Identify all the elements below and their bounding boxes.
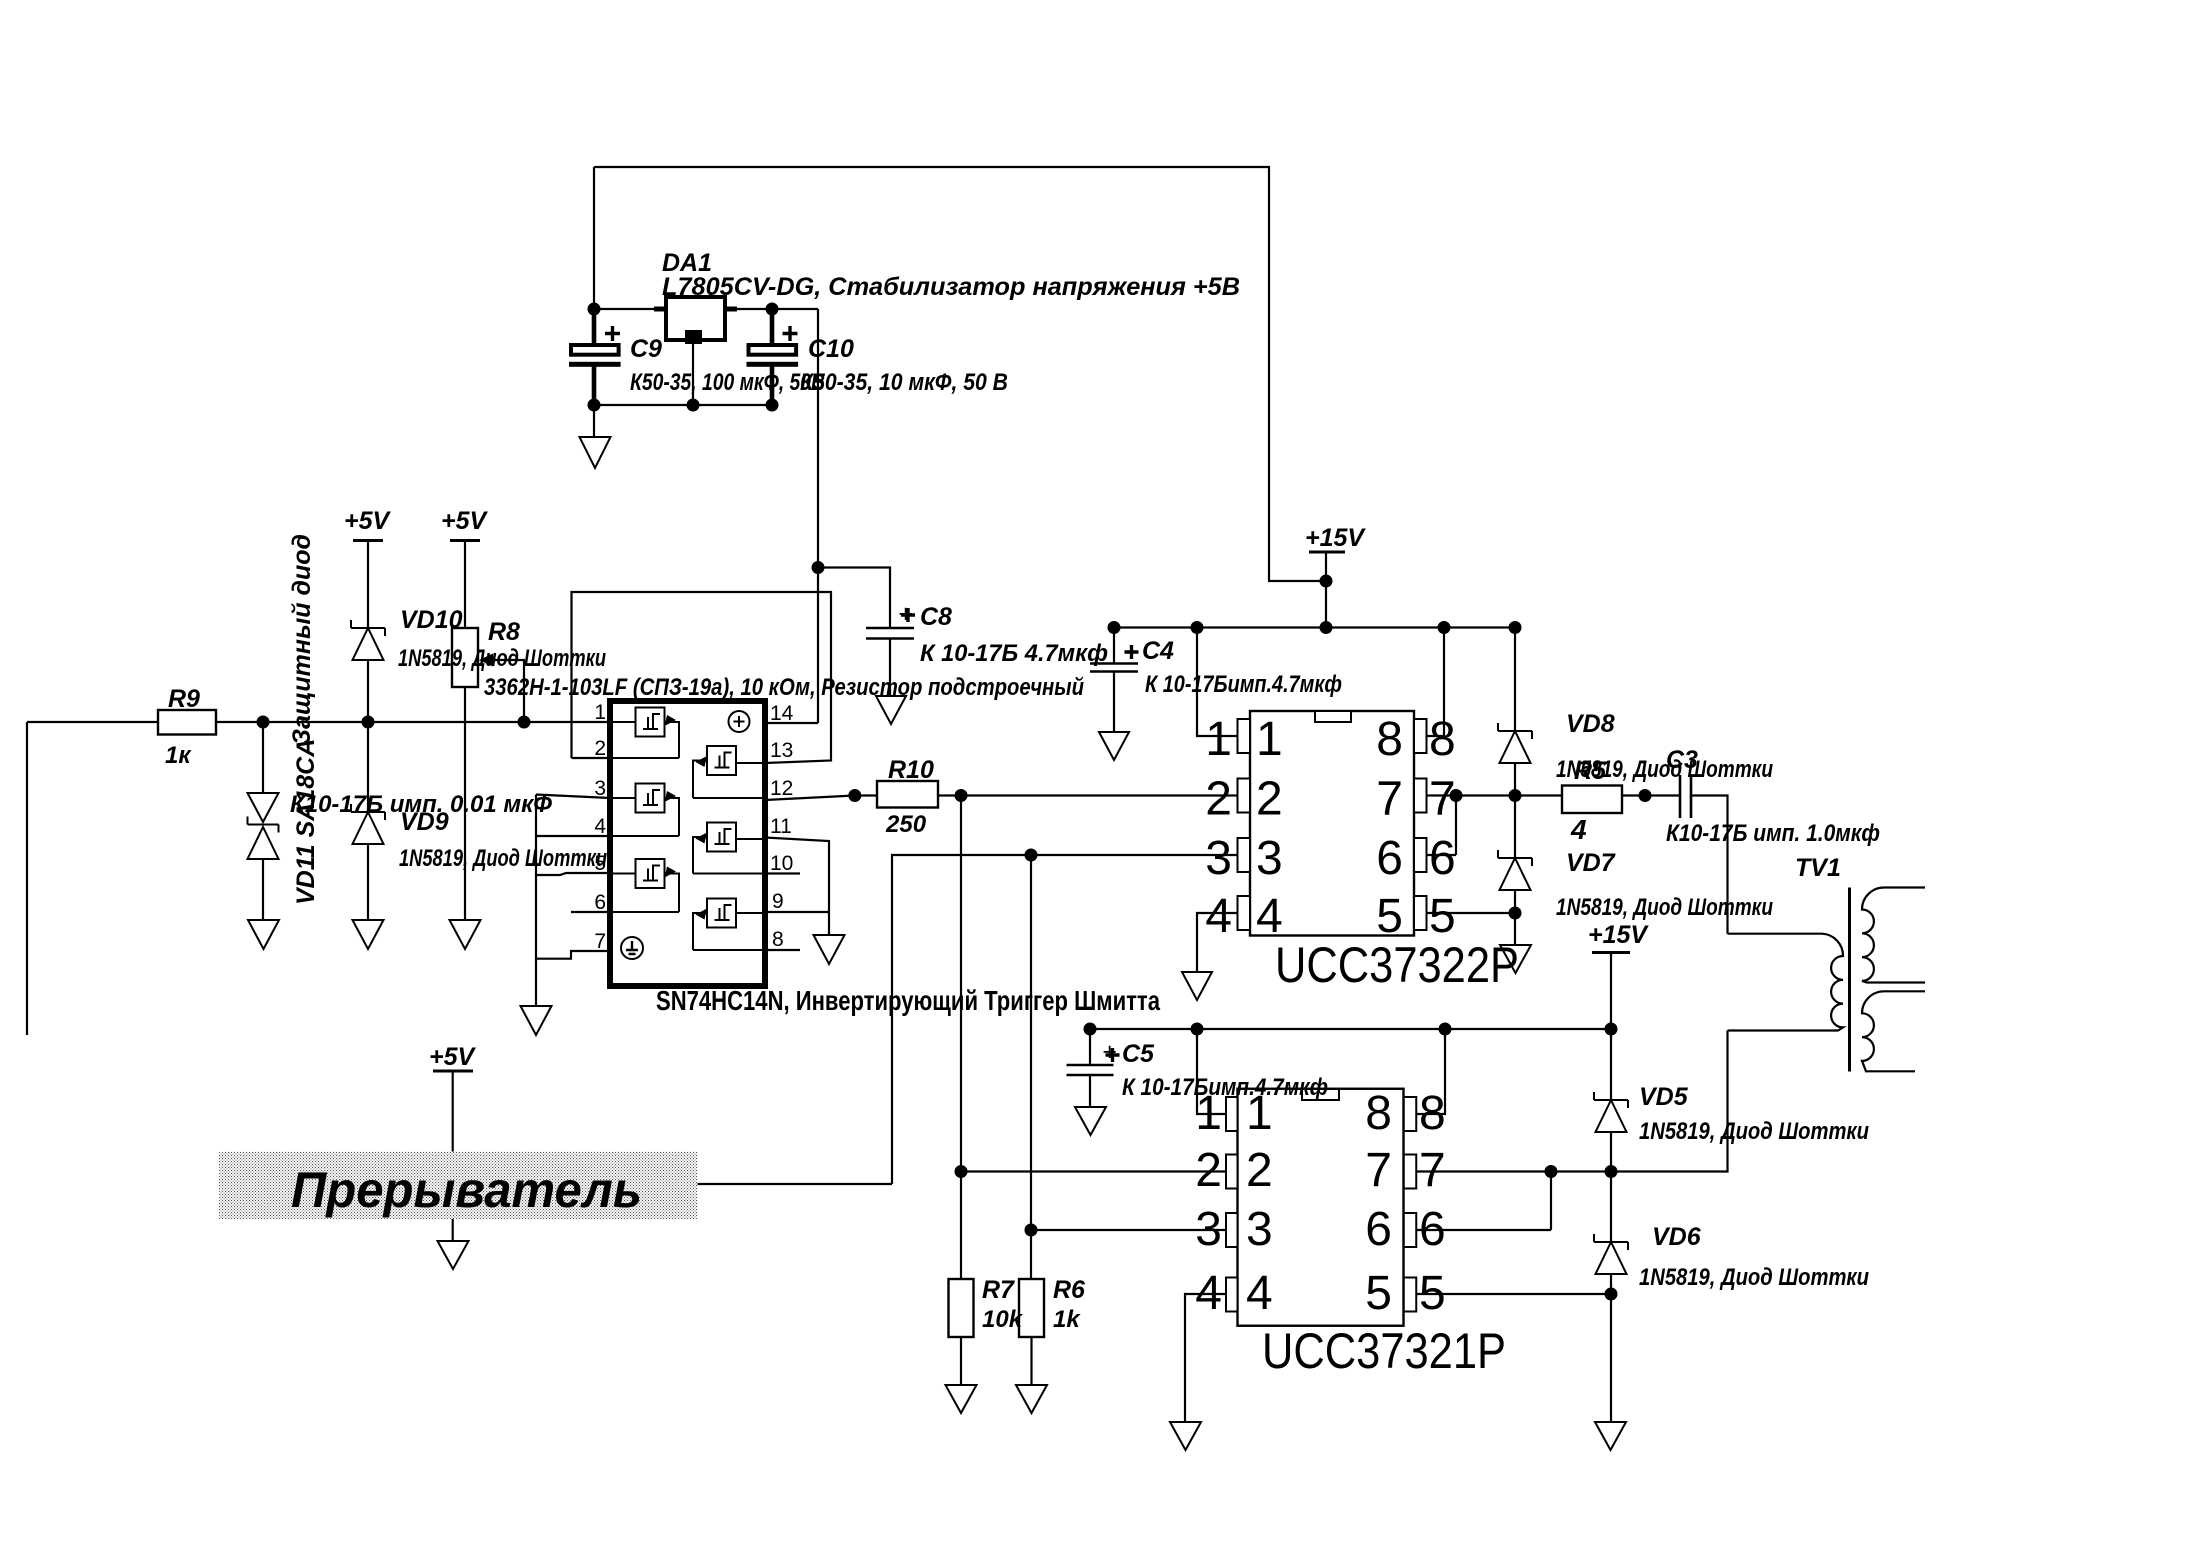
- svg-text:+15V: +15V: [1588, 921, 1649, 949]
- svg-text:5: 5: [1365, 1267, 1392, 1320]
- svg-text:К 10-17Бимп.4.7мкф: К 10-17Бимп.4.7мкф: [1122, 1074, 1328, 1101]
- svg-text:7: 7: [1376, 773, 1403, 826]
- svg-text:1N5819, Диод Шоттки: 1N5819, Диод Шоттки: [1639, 1118, 1869, 1145]
- svg-text:Прерыватель: Прерыватель: [291, 1162, 642, 1218]
- svg-text:VD6: VD6: [1652, 1223, 1702, 1251]
- svg-text:С9: С9: [630, 335, 662, 363]
- svg-text:3: 3: [1195, 1203, 1222, 1256]
- svg-text:7: 7: [1419, 1144, 1446, 1197]
- svg-text:2: 2: [594, 737, 606, 760]
- svg-text:3: 3: [1205, 832, 1232, 885]
- svg-text:R9: R9: [168, 685, 200, 713]
- svg-text:С8: С8: [920, 603, 952, 631]
- svg-text:3: 3: [1246, 1203, 1273, 1256]
- svg-text:2: 2: [1195, 1144, 1222, 1197]
- svg-text:1: 1: [1256, 713, 1283, 766]
- svg-text:8: 8: [1419, 1087, 1446, 1140]
- svg-text:К10-17Б имп. 1.0мкф: К10-17Б имп. 1.0мкф: [1666, 820, 1880, 847]
- svg-text:5: 5: [1429, 890, 1456, 943]
- svg-text:4: 4: [1205, 890, 1232, 943]
- svg-text:1N5819, Диод Шоттки: 1N5819, Диод Шоттки: [398, 645, 606, 672]
- svg-text:3: 3: [1256, 832, 1283, 885]
- svg-text:6: 6: [1419, 1203, 1446, 1256]
- svg-text:1N5819, Диод Шоттки: 1N5819, Диод Шоттки: [1556, 894, 1773, 921]
- svg-text:1: 1: [594, 701, 606, 724]
- svg-text:4: 4: [594, 815, 606, 838]
- svg-text:11: 11: [770, 815, 792, 838]
- svg-text:К 10-17Бимп.4.7мкф: К 10-17Бимп.4.7мкф: [1145, 671, 1342, 698]
- svg-text:VD5: VD5: [1639, 1083, 1689, 1111]
- svg-text:+: +: [1102, 1038, 1117, 1066]
- svg-text:8: 8: [772, 928, 784, 951]
- svg-text:VD11 SA18CA: VD11 SA18CA: [292, 739, 320, 905]
- svg-text:4: 4: [1570, 814, 1587, 845]
- svg-text:К50-35, 10 мкФ, 50 В: К50-35, 10 мкФ, 50 В: [800, 369, 1008, 396]
- svg-text:9: 9: [772, 890, 784, 913]
- svg-text:4: 4: [1246, 1267, 1273, 1320]
- svg-text:UCC37322P: UCC37322P: [1275, 937, 1519, 993]
- svg-text:12: 12: [770, 777, 793, 800]
- svg-text:TV1: TV1: [1795, 854, 1841, 882]
- svg-text:3362H-1-103LF (СПЗ-19а), 10 кО: 3362H-1-103LF (СПЗ-19а), 10 кОм, Резисто…: [484, 674, 1084, 701]
- svg-text:13: 13: [770, 739, 793, 762]
- svg-text:7: 7: [1365, 1144, 1392, 1197]
- svg-text:7: 7: [1429, 773, 1456, 826]
- svg-text:10k: 10k: [982, 1306, 1024, 1333]
- svg-text:R10: R10: [888, 756, 934, 784]
- svg-text:С3: С3: [1666, 746, 1698, 774]
- svg-text:8: 8: [1429, 713, 1456, 766]
- svg-text:10: 10: [770, 852, 793, 875]
- svg-text:250: 250: [885, 811, 927, 838]
- svg-text:Защитный диод: Защитный диод: [288, 534, 316, 745]
- svg-text:1N5819, Диод Шоттки: 1N5819, Диод Шоттки: [399, 845, 607, 872]
- svg-text:8: 8: [1376, 713, 1403, 766]
- svg-text:6: 6: [1365, 1203, 1392, 1256]
- svg-text:7: 7: [594, 930, 606, 953]
- svg-text:+15V: +15V: [1305, 524, 1366, 552]
- svg-text:R6: R6: [1053, 1276, 1086, 1304]
- svg-text:4: 4: [1195, 1267, 1222, 1320]
- svg-text:R7: R7: [982, 1276, 1015, 1304]
- svg-text:4: 4: [1256, 890, 1283, 943]
- svg-text:+5V: +5V: [441, 507, 489, 535]
- svg-text:2: 2: [1256, 773, 1283, 826]
- svg-text:L7805CV-DG, Стабилизатор напря: L7805CV-DG, Стабилизатор напряжения +5В: [662, 273, 1240, 301]
- svg-text:R8: R8: [488, 618, 520, 646]
- svg-text:К10-17Б имп. 0.01 мкФ: К10-17Б имп. 0.01 мкФ: [290, 791, 552, 818]
- svg-text:1к: 1к: [165, 742, 192, 769]
- svg-text:К50-35, 100 мкФ, 50В: К50-35, 100 мкФ, 50В: [630, 369, 825, 396]
- svg-text:R5: R5: [1574, 757, 1607, 785]
- svg-text:6: 6: [1429, 832, 1456, 885]
- svg-text:VD7: VD7: [1566, 849, 1616, 877]
- svg-text:+: +: [898, 600, 913, 628]
- svg-text:2: 2: [1205, 773, 1232, 826]
- svg-text:С4: С4: [1142, 637, 1174, 665]
- svg-text:5: 5: [1376, 890, 1403, 943]
- svg-text:С10: С10: [808, 335, 854, 363]
- svg-text:UCC37321P: UCC37321P: [1262, 1323, 1506, 1379]
- svg-text:3: 3: [594, 777, 606, 800]
- svg-text:8: 8: [1365, 1087, 1392, 1140]
- svg-text:5: 5: [1419, 1267, 1446, 1320]
- svg-text:SN74HC14N, Инвертирующий Тригг: SN74HC14N, Инвертирующий Триггер Шмитта: [656, 985, 1160, 1016]
- svg-text:2: 2: [1246, 1144, 1273, 1197]
- svg-text:+5V: +5V: [344, 507, 392, 535]
- svg-text:VD8: VD8: [1566, 710, 1615, 738]
- svg-text:VD10: VD10: [400, 606, 463, 634]
- svg-text:1N5819, Диод Шоттки: 1N5819, Диод Шоттки: [1639, 1264, 1869, 1291]
- svg-text:6: 6: [1376, 832, 1403, 885]
- svg-text:1: 1: [1205, 713, 1232, 766]
- svg-text:14: 14: [770, 702, 794, 725]
- svg-text:С5: С5: [1122, 1040, 1155, 1068]
- svg-text:К 10-17Б 4.7мкф: К 10-17Б 4.7мкф: [920, 640, 1108, 667]
- svg-text:1k: 1k: [1053, 1306, 1081, 1333]
- svg-text:+5V: +5V: [429, 1043, 477, 1071]
- svg-text:6: 6: [594, 891, 606, 914]
